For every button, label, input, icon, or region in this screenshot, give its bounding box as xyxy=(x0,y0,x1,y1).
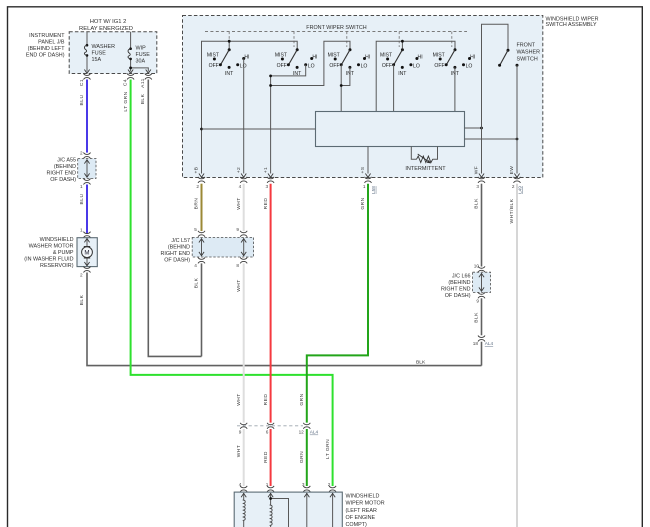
svg-text:COMPT): COMPT) xyxy=(346,522,367,527)
pin 1 of washer motor xyxy=(84,232,91,238)
svg-text:OFF: OFF xyxy=(434,63,444,69)
svg-text:HI: HI xyxy=(312,54,317,60)
svg-text:BLK: BLK xyxy=(474,198,480,209)
svg-text:HI: HI xyxy=(418,54,423,60)
wiper control block xyxy=(316,112,465,147)
svg-text:(BEHIND LEFT: (BEHIND LEFT xyxy=(28,46,66,52)
pin 2 (+B) xyxy=(198,177,205,183)
svg-text:2: 2 xyxy=(512,184,515,189)
svg-text:4: 4 xyxy=(239,184,242,189)
junction xyxy=(129,67,132,70)
pin A11 xyxy=(145,74,152,80)
svg-text:M: M xyxy=(84,249,89,256)
svg-text:9: 9 xyxy=(476,299,479,304)
svg-text:INTERMITTENT: INTERMITTENT xyxy=(405,166,446,172)
switch S3 xyxy=(328,48,371,77)
pin 3 wiper motor xyxy=(303,486,310,492)
svg-text:1: 1 xyxy=(363,184,366,189)
svg-text:FUSE: FUSE xyxy=(92,51,107,57)
pin 4 of J/C L57 xyxy=(198,257,205,263)
svg-text:WHT/BLK: WHT/BLK xyxy=(509,198,515,223)
svg-text:J/C L66: J/C L66 xyxy=(452,274,471,280)
svg-text:MIST: MIST xyxy=(207,52,219,58)
arrow terminal WF xyxy=(479,174,484,178)
wire WHT from AL4 to wiper motor xyxy=(243,429,245,486)
left stub from control block to +B wire xyxy=(202,128,316,130)
instrument panel J/B box xyxy=(69,32,157,74)
svg-text:4: 4 xyxy=(239,482,242,487)
pin 2 of J/C A55 xyxy=(84,153,91,159)
svg-text:MIST: MIST xyxy=(328,52,340,58)
svg-text:BLU: BLU xyxy=(79,95,85,106)
wire RED from +1 down to AL4 xyxy=(270,184,272,423)
windshield washer motor box xyxy=(77,238,97,267)
svg-text:WF: WF xyxy=(474,166,480,175)
switch S2 xyxy=(275,48,318,77)
switch S1 xyxy=(207,48,250,77)
wire BLK from A11 down to joint with J/C L57 leg xyxy=(148,80,201,357)
svg-text:LO: LO xyxy=(466,64,473,70)
wire BLK from L66 pin 9 to AL4 pin 18 xyxy=(481,298,483,335)
pin C4 xyxy=(127,74,134,80)
svg-text:LT GRN: LT GRN xyxy=(325,439,331,459)
wire BLU from A55 to washer motor xyxy=(86,185,88,234)
internal wires J/C L57 xyxy=(202,238,244,256)
svg-text:RESERVOIR): RESERVOIR) xyxy=(40,263,74,269)
wire GRN from +S down, left, down to AL4 xyxy=(307,184,368,423)
svg-text:AL4: AL4 xyxy=(485,341,494,346)
wire LT GRN from C4 down, right, to wiper motor xyxy=(131,80,333,487)
washer fuse 15A xyxy=(84,32,115,72)
wire BLK from AL4 pin 18 down to ground run xyxy=(481,342,483,366)
wire BLU from C1 to J/C A55 xyxy=(86,80,88,153)
pin 9 of J/C L66 xyxy=(478,292,485,298)
dashed drops to pivots xyxy=(229,32,452,48)
svg-text:WHT: WHT xyxy=(236,279,242,292)
svg-text:2: 2 xyxy=(80,273,83,278)
arrow terminal +2 xyxy=(241,174,246,178)
wire branch to A11 xyxy=(131,68,149,72)
svg-text:LT GRN: LT GRN xyxy=(123,91,129,111)
svg-text:1: 1 xyxy=(80,228,83,233)
wire WHT from +2 to J/C L57 xyxy=(243,184,245,231)
pin 4 wiper motor xyxy=(240,486,247,492)
wire WHT/BLK (EW) down to page bottom xyxy=(516,184,518,527)
svg-text:3: 3 xyxy=(265,184,268,189)
svg-text:HI: HI xyxy=(470,54,475,60)
arrow terminal +1 xyxy=(268,174,273,178)
svg-text:+S: +S xyxy=(360,166,366,173)
svg-text:END OF DASH): END OF DASH) xyxy=(26,53,65,59)
svg-text:1: 1 xyxy=(80,184,83,189)
pin 1 (+S) xyxy=(365,177,372,183)
connector AL4 dashed link xyxy=(237,425,303,427)
svg-text:30A: 30A xyxy=(136,59,146,65)
svg-text:2: 2 xyxy=(80,151,83,156)
svg-text:4: 4 xyxy=(194,263,197,268)
svg-text:OFF: OFF xyxy=(329,63,339,69)
right stub to EW wire xyxy=(465,138,518,140)
svg-text:(BEHIND: (BEHIND xyxy=(54,164,76,170)
svg-text:FRONT WIPER SWITCH: FRONT WIPER SWITCH xyxy=(306,25,366,31)
pin 2 of washer motor xyxy=(84,267,91,273)
svg-text:BLK: BLK xyxy=(79,294,85,305)
svg-text:WHT: WHT xyxy=(236,197,242,210)
svg-text:FRONT: FRONT xyxy=(517,43,536,49)
svg-text:+1: +1 xyxy=(263,167,269,173)
pin 5 of J/C L57 xyxy=(198,231,205,237)
+S output of control block xyxy=(367,147,369,174)
svg-text:RIGHT END: RIGHT END xyxy=(441,287,471,293)
WIP fuse 30A xyxy=(128,32,150,72)
svg-text:SWITCH: SWITCH xyxy=(517,57,538,63)
wire GRN from AL4 to wiper motor xyxy=(306,429,308,486)
svg-text:FUSE: FUSE xyxy=(136,52,151,58)
arrow wip fuse output xyxy=(128,70,133,74)
wire BLK from L57 pin 4 down to joint xyxy=(201,263,203,356)
svg-text:LO: LO xyxy=(413,64,420,70)
S2 link up to S3 rail xyxy=(271,41,350,85)
S1 HI wire down to exit +2 xyxy=(243,59,245,174)
pin 3 (WF) xyxy=(478,177,485,183)
svg-text:WASHER: WASHER xyxy=(517,50,541,56)
svg-text:RELAY ENERGIZED: RELAY ENERGIZED xyxy=(79,26,133,32)
svg-text:J/C L57: J/C L57 xyxy=(171,238,190,244)
svg-text:OF DASH): OF DASH) xyxy=(50,177,76,183)
label INSTRUMENT PANEL J/B xyxy=(26,33,65,59)
svg-text:J/C A55: J/C A55 xyxy=(57,158,76,164)
arrow terminal +B xyxy=(199,174,204,178)
front washer switch xyxy=(482,24,541,173)
junction of left stub on +B wire xyxy=(200,128,203,131)
pin 3 (+1) xyxy=(267,177,274,183)
svg-text:(IN WASHER FLUID: (IN WASHER FLUID xyxy=(24,257,73,263)
S4 OFF wire to control block xyxy=(393,65,395,112)
wire BRN from +B to J/C L57 xyxy=(201,184,203,231)
svg-text:WINDSHIELD: WINDSHIELD xyxy=(40,237,74,243)
svg-text:GRN: GRN xyxy=(360,197,366,209)
pin 2 (EW) xyxy=(514,177,521,183)
svg-text:HI: HI xyxy=(244,54,249,60)
J/C A55 connector box xyxy=(78,159,96,179)
rail 1 : +B feed to S1/S2 pivots xyxy=(202,41,298,173)
pin 9 of J/C L57 xyxy=(240,231,247,237)
svg-text:OFF: OFF xyxy=(277,63,287,69)
pin 1 of J/C A55 xyxy=(84,179,91,185)
svg-text:3: 3 xyxy=(302,482,305,487)
svg-text:12: 12 xyxy=(299,430,305,435)
pin 12 AL4 xyxy=(303,423,310,429)
svg-text:INSTRUMENT: INSTRUMENT xyxy=(29,33,65,39)
svg-text:3: 3 xyxy=(476,184,479,189)
svg-text:9: 9 xyxy=(236,227,239,232)
svg-text:OFF: OFF xyxy=(382,63,392,69)
motor symbol M xyxy=(82,238,93,266)
svg-text:OF ENGINE: OF ENGINE xyxy=(346,515,376,521)
svg-text:MIST: MIST xyxy=(433,52,445,58)
svg-text:OF DASH): OF DASH) xyxy=(445,293,471,299)
dashed mechanical bracket xyxy=(205,31,467,33)
svg-text:AL4: AL4 xyxy=(310,430,319,435)
wire WHT from L57 pin 8 down to AL4 xyxy=(243,263,245,422)
svg-text:INT: INT xyxy=(398,71,406,77)
S5 INT wire to control block xyxy=(454,67,456,111)
svg-text:9: 9 xyxy=(239,430,242,435)
svg-text:BLK: BLK xyxy=(474,312,480,323)
wire BLK (WF) from big box to J/C L66 xyxy=(481,184,483,267)
svg-text:& PUMP: & PUMP xyxy=(53,250,74,256)
svg-text:WASHER MOTOR: WASHER MOTOR xyxy=(29,244,74,250)
svg-text:WINDSHIELD: WINDSHIELD xyxy=(346,494,380,500)
switch S5 xyxy=(433,48,476,77)
S3 OFF wire to control block xyxy=(340,65,342,112)
J/C L57 connector box xyxy=(192,237,253,257)
svg-text:18: 18 xyxy=(473,341,479,346)
svg-text:2: 2 xyxy=(196,184,199,189)
svg-text:WIPER MOTOR: WIPER MOTOR xyxy=(346,501,385,507)
intermittent variable resistor xyxy=(405,147,446,173)
pin 6 AL4 xyxy=(267,423,274,429)
rail 2 : S4/S5 pivots to control block xyxy=(376,41,455,111)
pin 4 (+2) xyxy=(240,177,247,183)
pin 10 of J/C L66 xyxy=(478,266,485,272)
svg-text:SWITCH ASSEMBLY: SWITCH ASSEMBLY xyxy=(546,22,598,28)
pin 2 wiper motor xyxy=(329,486,336,492)
pin 1 wiper motor xyxy=(267,486,274,492)
svg-text:1: 1 xyxy=(266,482,269,487)
svg-text:RIGHT END: RIGHT END xyxy=(46,171,76,177)
arrow A11 output xyxy=(146,70,151,74)
wire BLK from washer motor down and right xyxy=(87,273,482,366)
pin 8 of J/C L57 xyxy=(240,257,247,263)
svg-text:MIST: MIST xyxy=(380,52,392,58)
arrow washer fuse output xyxy=(84,70,89,74)
svg-text:LO: LO xyxy=(361,64,368,70)
svg-text:HOT W/ IG1 2: HOT W/ IG1 2 xyxy=(90,19,127,25)
svg-text:WASHER: WASHER xyxy=(92,44,116,50)
J/C L66 connector box xyxy=(473,272,491,292)
svg-text:OFF: OFF xyxy=(209,63,219,69)
svg-text:10: 10 xyxy=(474,263,480,268)
svg-text:EW: EW xyxy=(509,166,515,175)
arrow terminal +S xyxy=(365,174,370,178)
svg-text:RIGHT END: RIGHT END xyxy=(160,251,190,257)
svg-text:BLU: BLU xyxy=(79,194,85,205)
svg-text:WHT: WHT xyxy=(236,393,242,406)
svg-text:BLK: BLK xyxy=(140,93,146,104)
svg-text:BLK: BLK xyxy=(194,277,200,288)
svg-text:PANEL J/B: PANEL J/B xyxy=(38,40,65,46)
pin 9 AL4 xyxy=(240,423,247,429)
svg-text:(BEHIND: (BEHIND xyxy=(168,245,190,251)
windshield wiper motor box xyxy=(234,492,342,527)
pin 18 AL4 xyxy=(478,336,485,342)
arrow terminal EW xyxy=(514,174,519,178)
svg-text:INT: INT xyxy=(225,71,233,77)
svg-text:(LEFT REAR: (LEFT REAR xyxy=(346,508,377,514)
svg-text:5: 5 xyxy=(194,227,197,232)
internal wire J/C L66 xyxy=(481,273,483,291)
svg-text:L49: L49 xyxy=(517,186,522,194)
label HOT W/ IG1 2 RELAY ENERGIZED xyxy=(79,19,133,32)
svg-text:2: 2 xyxy=(328,482,331,487)
svg-text:8: 8 xyxy=(236,263,239,268)
svg-text:LO: LO xyxy=(308,64,315,70)
svg-text:MIST: MIST xyxy=(275,52,287,58)
S1 pivot drop xyxy=(228,41,230,48)
svg-text:A11: A11 xyxy=(140,78,146,88)
pin C1 xyxy=(84,74,91,80)
svg-text:GRN: GRN xyxy=(299,393,305,405)
svg-text:BRN: BRN xyxy=(194,198,200,210)
svg-text:15A: 15A xyxy=(92,57,102,63)
windshield wiper switch assembly box xyxy=(183,16,543,178)
svg-text:(BEHIND: (BEHIND xyxy=(448,280,470,286)
svg-text:WIP: WIP xyxy=(136,46,147,52)
internal wire with arrows J/C A55 xyxy=(86,160,88,178)
svg-text:+2: +2 xyxy=(236,167,242,173)
svg-text:C4: C4 xyxy=(123,79,129,86)
right stub to WF wire xyxy=(465,127,482,129)
svg-text:+B: +B xyxy=(194,166,200,173)
svg-text:OF DASH): OF DASH) xyxy=(164,258,190,264)
svg-text:6: 6 xyxy=(266,430,269,435)
svg-text:BLK: BLK xyxy=(416,360,426,366)
wiper motor internals xyxy=(241,493,335,527)
svg-text:L58: L58 xyxy=(371,186,376,194)
svg-text:WHT: WHT xyxy=(236,445,242,458)
svg-text:HI: HI xyxy=(365,54,370,60)
S2 LO link and +1 exit wire xyxy=(271,65,306,174)
switch S4 xyxy=(380,48,423,77)
svg-text:RED: RED xyxy=(263,198,269,210)
svg-text:RED: RED xyxy=(263,394,269,406)
svg-text:RED: RED xyxy=(263,451,269,463)
svg-text:GRN: GRN xyxy=(299,451,305,463)
wire RED from AL4 to wiper motor xyxy=(270,429,272,486)
S3 INT link xyxy=(341,67,350,85)
svg-text:C1: C1 xyxy=(79,79,85,86)
